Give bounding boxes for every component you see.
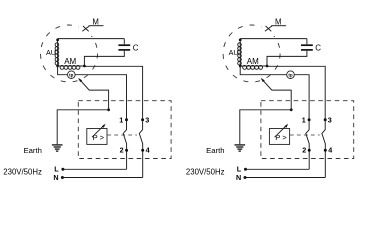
svg-text:tp: tp	[69, 72, 73, 77]
svg-text:tp: tp	[288, 72, 292, 77]
